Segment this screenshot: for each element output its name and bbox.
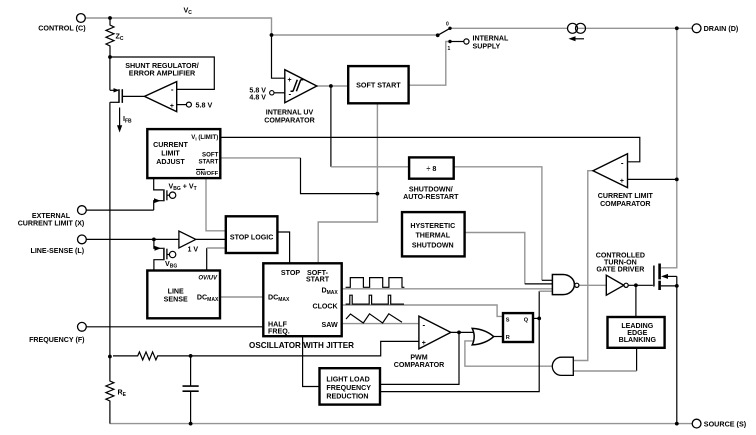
wire NAND output to gate driver xyxy=(579,284,606,286)
svg-text:SUPPLY: SUPPLY xyxy=(473,42,501,50)
waveform CLOCK pulses xyxy=(346,295,404,304)
waveform DMAX square wave xyxy=(346,278,405,288)
wire VC to internal UV comparator plus input xyxy=(272,35,285,78)
svg-text:ADJUST: ADJUST xyxy=(156,158,185,166)
svg-text:+: + xyxy=(170,103,174,110)
wire UV comparator output to SOFT START block xyxy=(317,85,348,87)
wire LINE SENSE DCMAX output to oscillator xyxy=(220,296,263,298)
resistor ZC xyxy=(106,16,124,59)
wire 1V buffer output to STOP LOGIC xyxy=(196,238,226,240)
label CONTROLLED TURN-ON GATE DRIVER xyxy=(596,252,645,274)
wire LINE-SENSE L pin xyxy=(86,238,179,242)
wire SOFT START output to internal supply switch contact 1 xyxy=(409,42,449,86)
wire current limit comparator plus input from drain bus xyxy=(628,178,679,182)
svg-text:4.8 V: 4.8 V xyxy=(249,93,266,101)
wire divide-by-8 output to NAND input xyxy=(454,167,553,280)
svg-text:LIGHT LOAD: LIGHT LOAD xyxy=(326,375,369,383)
terminal EXTERNAL CURRENT LIMIT (X) xyxy=(18,206,87,228)
wire feedback node to PWM comparator plus input xyxy=(191,341,419,356)
svg-text:5.8 V: 5.8 V xyxy=(196,100,213,109)
svg-text:INTERNAL UV: INTERNAL UV xyxy=(266,109,314,117)
node capacitor top junction xyxy=(189,354,193,358)
buffer 1V xyxy=(179,231,199,253)
svg-text:-: - xyxy=(621,159,624,168)
svg-text:CURRENT: CURRENT xyxy=(153,141,188,149)
wire VC top rail from CONTROL to switch xyxy=(85,18,437,35)
svg-text:START: START xyxy=(198,159,218,166)
label PWM COMPARATOR xyxy=(394,354,444,369)
label SHUTDOWN/AUTO-RESTART xyxy=(403,185,459,201)
svg-text:1: 1 xyxy=(448,46,451,52)
svg-text:FREQUENCY: FREQUENCY xyxy=(326,384,371,392)
node drain junction xyxy=(675,26,679,30)
nand-gate U-NAND xyxy=(552,275,579,295)
svg-text:DRAIN (D): DRAIN (D) xyxy=(704,24,739,33)
wire drain supply from switch contact 0 to DRAIN xyxy=(450,27,692,29)
svg-text:COMPARATOR: COMPARATOR xyxy=(394,361,444,369)
svg-text:OV/UV: OV/UV xyxy=(198,276,218,282)
svg-text:CLOCK: CLOCK xyxy=(312,302,338,310)
capacitor C filter xyxy=(183,356,199,426)
wire OR gate output to latch R input xyxy=(494,336,503,338)
label 5.8V / 4.8V thresholds xyxy=(249,86,284,101)
wire oscillator CLOCK output to latch S input xyxy=(342,305,503,316)
wire latch Q down to LIGHT LOAD box input xyxy=(380,318,539,391)
box CURRENT LIMIT ADJUST xyxy=(147,129,220,178)
svg-text:AUTO-RESTART: AUTO-RESTART xyxy=(403,193,459,201)
svg-text:SAW: SAW xyxy=(322,321,338,329)
wire gate driver output to MOSFET gate xyxy=(628,283,653,287)
box LINE SENSE xyxy=(147,271,220,319)
node RC filter left junction xyxy=(108,355,112,359)
wire latch Q output node xyxy=(533,317,541,321)
svg-text:CONTROL (C): CONTROL (C) xyxy=(38,24,86,33)
svg-text:+: + xyxy=(620,178,624,185)
svg-text:R: R xyxy=(506,335,510,341)
waveform SAW sawtooth xyxy=(346,314,402,323)
transistor VBG MOSFET xyxy=(154,239,177,270)
and-gate U-AND (mirrored, output left) xyxy=(552,357,573,375)
svg-text:VI (LIMIT): VI (LIMIT) xyxy=(191,134,218,141)
svg-text:REDUCTION: REDUCTION xyxy=(326,393,368,401)
box LIGHT LOAD FREQUENCY REDUCTION xyxy=(320,368,381,404)
transistor output power MOSFET xyxy=(654,264,679,291)
svg-text:SENSE: SENSE xyxy=(164,295,188,303)
svg-text:LIMIT: LIMIT xyxy=(161,149,180,157)
svg-text:SOFT START: SOFT START xyxy=(356,81,401,90)
terminal INTERNAL SUPPLY xyxy=(464,35,509,51)
svg-text:Q: Q xyxy=(524,318,529,324)
box LEADING EDGE BLANKING xyxy=(608,317,665,348)
comparator PWM xyxy=(419,316,451,349)
svg-text:HYSTERETIC: HYSTERETIC xyxy=(410,222,455,230)
box divide by 8 xyxy=(409,157,454,178)
svg-text:-: - xyxy=(171,85,174,94)
op-amp shunt regulator error amplifier xyxy=(145,82,177,112)
wire OV/UV output of LINE SENSE to STOP LOGIC xyxy=(207,248,226,271)
svg-text:+: + xyxy=(422,340,426,347)
wire thermal shutdown output to NAND input xyxy=(465,233,553,284)
comparator internal UV xyxy=(285,70,317,103)
svg-text:S: S xyxy=(506,318,510,324)
comparator current limit xyxy=(593,154,628,188)
wire EXTERNAL CURRENT LIMIT X pin xyxy=(86,209,154,211)
svg-text:SOURCE (S): SOURCE (S) xyxy=(704,419,747,428)
svg-text:ERROR AMPLIFIER: ERROR AMPLIFIER xyxy=(129,69,196,78)
svg-text:SHUTDOWN: SHUTDOWN xyxy=(412,241,454,249)
svg-text:STOP LOGIC: STOP LOGIC xyxy=(230,234,274,242)
node UV output junction xyxy=(329,84,333,88)
buffer controlled turn-on gate driver xyxy=(606,275,628,295)
svg-text:BLANKING: BLANKING xyxy=(619,336,657,344)
resistor series RC horizontal xyxy=(113,352,191,360)
terminal FREQUENCY (F) xyxy=(29,322,86,343)
box HYSTERETIC THERMAL SHUTDOWN xyxy=(402,212,465,256)
wire MOSFET source down to source rail xyxy=(675,286,679,426)
svg-text:THERMAL: THERMAL xyxy=(415,232,450,240)
switch internal supply selector xyxy=(436,22,464,52)
wire CURRENT LIMIT ADJUST soft-start output to soft-start net xyxy=(220,158,377,194)
terminal LINE-SENSE (L) xyxy=(30,235,86,255)
svg-text:CURRENT LIMIT (X): CURRENT LIMIT (X) xyxy=(18,219,85,227)
wire oscillator half-freq link to LIGHT LOAD box xyxy=(303,336,320,386)
svg-text:COMPARATOR: COMPARATOR xyxy=(600,200,650,208)
terminal SOURCE (S) xyxy=(692,419,747,428)
label CURRENT LIMIT COMPARATOR xyxy=(598,192,654,208)
svg-text:FREQ.: FREQ. xyxy=(268,328,290,336)
wire oscillator DMAX output to NAND input xyxy=(342,288,553,290)
wire feedback IFB vertical from shunt MOSFET to RC node xyxy=(109,102,111,356)
box STOP LOGIC xyxy=(226,216,278,253)
wire ON/OFF output to STOP LOGIC xyxy=(206,178,226,231)
svg-text:0: 0 xyxy=(446,22,449,28)
label IFB with arrow xyxy=(117,108,132,133)
terminal 5.8 V reference xyxy=(177,100,213,109)
wire driver output down to LEADING EDGE BLANKING xyxy=(635,285,637,317)
wire source rail xyxy=(110,423,693,425)
wire soft-start net vertical to oscillator SOFT-START input xyxy=(318,103,377,263)
terminal CONTROL (C) xyxy=(38,14,86,33)
transistor shunt regulator MOSFET xyxy=(110,88,145,103)
label INTERNAL UV COMPARATOR xyxy=(264,109,314,125)
svg-text:LINE-SENSE (L): LINE-SENSE (L) xyxy=(30,247,84,255)
svg-text:ON/OFF: ON/OFF xyxy=(196,171,219,177)
wire divide-by-8 input from UV output node xyxy=(331,86,409,167)
svg-text:STOP: STOP xyxy=(281,269,300,277)
wire oscillator SAW output to PWM comparator xyxy=(342,323,419,325)
wire drain vertical bus xyxy=(661,28,677,267)
wire FREQUENCY F pin to oscillator xyxy=(86,326,263,328)
svg-text:GATE DRIVER: GATE DRIVER xyxy=(596,265,644,273)
wire PWM comparator output to OR gate xyxy=(451,331,475,333)
svg-text:1 V: 1 V xyxy=(188,245,199,253)
svg-text:-: - xyxy=(423,321,426,330)
wire AND gate output loop to OR gate second input xyxy=(465,341,552,366)
box shunt regulator / error amplifier (open bottom) xyxy=(110,57,214,90)
svg-text:LINE: LINE xyxy=(168,287,184,295)
wire VI(LIMIT) to current limit comparator inverting input xyxy=(220,137,639,161)
svg-text:+: + xyxy=(288,77,292,84)
box SOFT START xyxy=(348,66,408,103)
svg-text:COMPARATOR: COMPARATOR xyxy=(264,116,314,124)
node PWM output junction xyxy=(457,331,461,335)
latch S-R flip flop xyxy=(503,313,533,342)
wire STOP LOGIC output to oscillator STOP input xyxy=(277,232,289,263)
or-gate U-OR xyxy=(472,328,494,345)
box OSCILLATOR WITH JITTER xyxy=(263,263,341,336)
svg-text:FREQUENCY (F): FREQUENCY (F) xyxy=(29,336,85,344)
wire LEADING EDGE BLANKING output to AND input xyxy=(573,348,636,371)
wire PWM output branch down to LIGHT LOAD box xyxy=(380,332,459,384)
wire latch Q up to NAND input xyxy=(539,291,552,318)
wire current limit comparator output down to AND input xyxy=(573,171,593,361)
svg-text:÷ 8: ÷ 8 xyxy=(426,164,436,173)
svg-text:START: START xyxy=(306,275,330,283)
svg-text:OSCILLATOR WITH JITTER: OSCILLATOR WITH JITTER xyxy=(249,341,354,350)
node VC branch junction xyxy=(270,33,274,37)
terminal DRAIN (D) xyxy=(692,24,739,33)
svg-text:SOFT: SOFT xyxy=(202,152,219,159)
resistor RE xyxy=(106,357,127,424)
transistor VBG+VT MOSFET xyxy=(154,178,197,210)
current source (internal supply) xyxy=(568,23,586,41)
node soft-start net junction xyxy=(376,192,380,196)
